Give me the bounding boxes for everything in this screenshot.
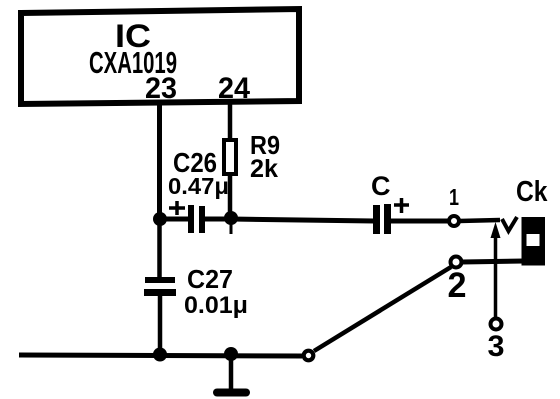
svg-text:1: 1 bbox=[449, 184, 459, 210]
node C junction (C27 / rail) bbox=[153, 348, 167, 362]
wire C26 left bbox=[160, 217, 189, 222]
wire pin24 vertical bbox=[228, 102, 233, 140]
svg-text:24: 24 bbox=[218, 72, 250, 105]
capacitor C bbox=[373, 205, 380, 234]
wire C26 right bbox=[205, 217, 231, 222]
terminal 2 bbox=[451, 257, 462, 268]
wire C right bbox=[391, 219, 449, 224]
wire C27 top bbox=[157, 219, 162, 278]
wire C27 bottom bbox=[158, 295, 163, 353]
svg-text:2: 2 bbox=[448, 266, 467, 305]
svg-text:C: C bbox=[371, 171, 391, 201]
switch pole arrow bbox=[491, 222, 501, 238]
C plus polarity bbox=[394, 198, 409, 213]
wire bottom rail bbox=[19, 355, 302, 356]
V contact mark bbox=[502, 217, 517, 231]
svg-text:23: 23 bbox=[145, 72, 177, 105]
resistor R9 bbox=[224, 140, 236, 174]
wire after terminal 1 bbox=[459, 220, 500, 221]
node B junction (R9 / wire) bbox=[224, 211, 238, 225]
wire long horizontal to C bbox=[231, 219, 374, 221]
svg-text:0.01μ: 0.01μ bbox=[184, 292, 248, 319]
svg-text:0.47μ: 0.47μ bbox=[168, 173, 229, 199]
wire terminal 2 to jack bbox=[462, 261, 524, 262]
switch common contact circle bbox=[304, 351, 314, 361]
node A junction (pin23 / C26 / C27) bbox=[153, 212, 167, 226]
node D junction (ground / rail) bbox=[224, 347, 238, 361]
C26 plus polarity bbox=[169, 201, 185, 215]
jack Ck body bbox=[522, 217, 546, 266]
capacitor C26 bbox=[188, 205, 194, 233]
svg-text:C27: C27 bbox=[187, 264, 233, 294]
wire stub below node B bbox=[230, 220, 233, 234]
svg-text:2k: 2k bbox=[250, 155, 278, 183]
capacitor C27 bbox=[145, 277, 175, 283]
wire switch lever diagonal bbox=[314, 267, 451, 351]
IC U1 box CXA1019 bbox=[21, 9, 299, 104]
terminal 3 bbox=[491, 319, 502, 330]
svg-text:Ck: Ck bbox=[516, 176, 548, 208]
terminal 1 bbox=[449, 216, 459, 226]
wire R9 bottom bbox=[228, 175, 233, 222]
ground bbox=[229, 353, 234, 389]
svg-text:3: 3 bbox=[488, 330, 505, 363]
wire pin23 vertical bbox=[157, 102, 162, 219]
